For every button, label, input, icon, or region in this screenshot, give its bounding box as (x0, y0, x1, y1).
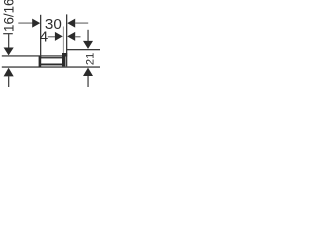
svg-text:4: 4 (40, 29, 48, 46)
svg-text:16/16: 16/16 (1, 0, 16, 32)
svg-text:21: 21 (85, 53, 97, 65)
